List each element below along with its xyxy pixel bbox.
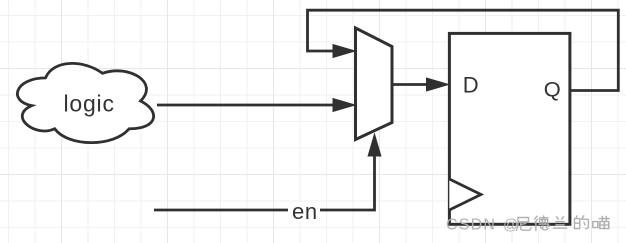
- svg-text:D: D: [463, 72, 479, 97]
- svg-text:Q: Q: [544, 78, 561, 102]
- svg-text:logic: logic: [63, 90, 114, 116]
- svg-text:CSDN: CSDN: [446, 216, 496, 233]
- svg-text:en: en: [292, 199, 318, 224]
